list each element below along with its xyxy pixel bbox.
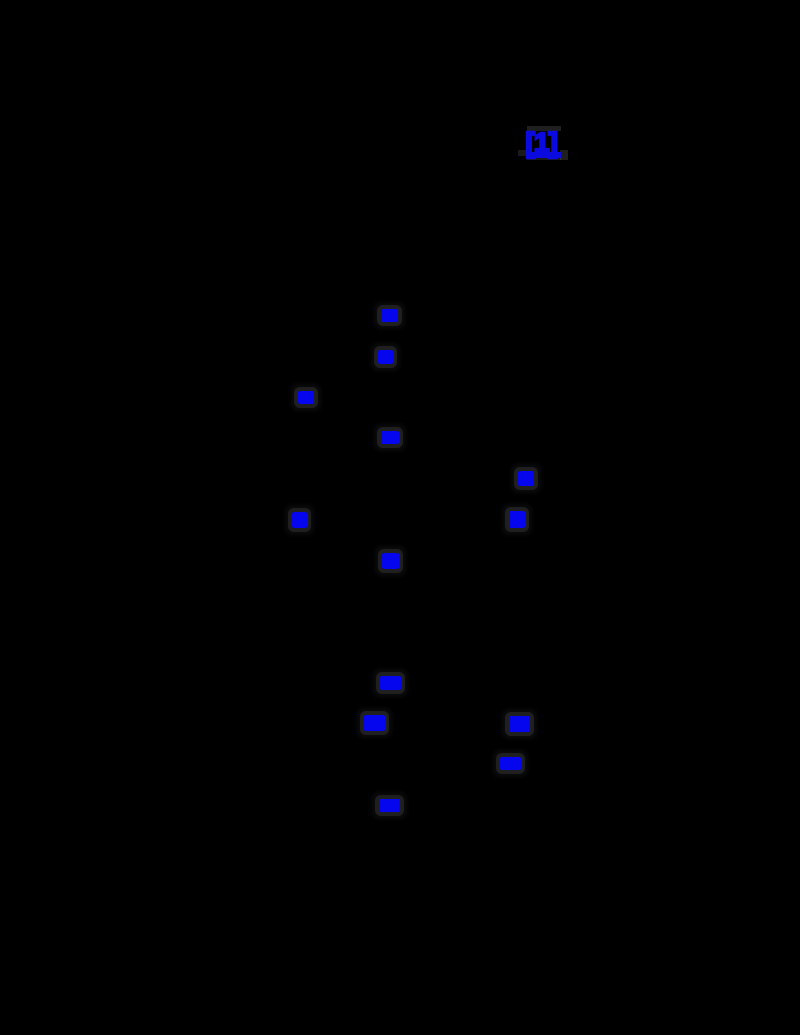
citation link [1] halo right patch (560, 150, 568, 160)
structure 1: atom label N1 (381, 309, 398, 322)
structure 1: atom label N8 (382, 553, 399, 569)
structure 1: atom label N6 (292, 512, 307, 528)
structure 1: atom label N5 (518, 471, 534, 486)
structure 2: atom label NH5 (379, 799, 400, 812)
citation link [1] underline (526, 152, 561, 158)
structure 2: atom label NH2 (364, 715, 385, 731)
structure 2: atom label NH4 (500, 757, 521, 770)
structure 1: atom label N4 (381, 431, 399, 444)
structure 2: atom label NH1 (380, 676, 401, 690)
structure 1: atom label N2 (378, 350, 393, 364)
structure 1: atom label N3 (298, 391, 314, 404)
citation link [1] halo left patch (518, 150, 526, 156)
citation link [1] halo bottom strip (527, 157, 561, 160)
structure 2: atom label NH3 (509, 716, 530, 732)
structure 1: atom label N7 (509, 511, 525, 528)
citation link [1] (526, 127, 557, 159)
citation link [1] halo top band (527, 126, 561, 131)
